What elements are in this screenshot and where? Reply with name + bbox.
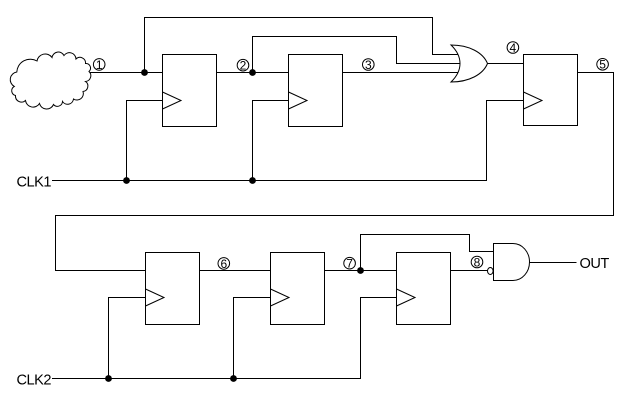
inverter bubble on U8 lower input: [488, 268, 494, 275]
CLK2 wire: [52, 298, 397, 379]
wire U5 output to U6 (node 7): [325, 270, 397, 272]
svg-text:6: 6: [220, 257, 227, 271]
wire CLK2 riser to U4 clock: [109, 298, 146, 379]
and-gate U8: [494, 244, 530, 281]
node 1 junction dot: [141, 69, 148, 76]
wire U2 output to OR gate bottom input (node 3): [343, 72, 463, 74]
wire OR output to U3 (node 4): [488, 63, 524, 65]
svg-text:7: 7: [346, 257, 353, 271]
wire AND output to OUT: [530, 262, 577, 264]
wire node7 rail to AND gate top input: [361, 235, 494, 271]
wire U1 output to U2 (node 2): [217, 72, 289, 74]
wire cloud to node 1: [87, 72, 162, 74]
svg-text:5: 5: [599, 58, 606, 72]
svg-text:8: 8: [474, 255, 481, 269]
wire CLK1 riser to U2 clock: [253, 101, 289, 181]
CLK2 junction dot at U5 riser: [230, 375, 237, 382]
CLK1 junction dot at U2 riser: [249, 177, 256, 184]
node 1 label: [93, 58, 105, 72]
CLK1 label: [17, 174, 52, 190]
node 2 label: [237, 59, 249, 73]
svg-text:2: 2: [240, 59, 247, 73]
svg-text:CLK1: CLK1: [17, 174, 52, 190]
or-gate U7: [451, 45, 488, 82]
wire node1 feedback rail to OR gate top input: [145, 18, 463, 73]
wire node2 feedback rail to OR gate middle input: [253, 37, 463, 73]
flip-flop U5: [271, 253, 325, 325]
flip-flop U3: [524, 55, 578, 126]
CLK1 wire: [52, 101, 524, 181]
wire U3 output (node 5) down and across to U4 input: [56, 73, 614, 271]
wire U6 output to AND gate inverted input (node 8): [451, 270, 489, 272]
flip-flop U6: [397, 253, 451, 325]
node 7 label: [344, 257, 356, 271]
svg-text:4: 4: [510, 41, 517, 55]
CLK1 junction dot at U1 riser: [123, 177, 130, 184]
node 6 label: [218, 257, 230, 271]
flip-flop U1: [163, 55, 217, 127]
node 7 junction dot: [357, 267, 364, 274]
node 3 label: [363, 58, 375, 72]
OUT label: [580, 256, 610, 272]
svg-text:3: 3: [365, 58, 372, 72]
node 2 junction dot: [249, 69, 256, 76]
node 4 label: [507, 41, 519, 55]
CLK2 label: [17, 372, 52, 388]
wire CLK1 riser to U1 clock: [127, 101, 163, 181]
node 8 label: [471, 255, 483, 269]
flip-flop U2: [289, 55, 343, 127]
node 5 label: [597, 58, 609, 72]
wire U4 output to U5 (node 6): [200, 270, 271, 272]
svg-text:1: 1: [96, 58, 103, 72]
flip-flop U4: [146, 253, 200, 325]
cloud signal source: [10, 52, 91, 109]
wire CLK2 riser to U5 clock: [234, 298, 271, 379]
svg-text:OUT: OUT: [580, 256, 610, 272]
svg-text:CLK2: CLK2: [17, 372, 52, 388]
CLK2 junction dot at U4 riser: [105, 375, 112, 382]
